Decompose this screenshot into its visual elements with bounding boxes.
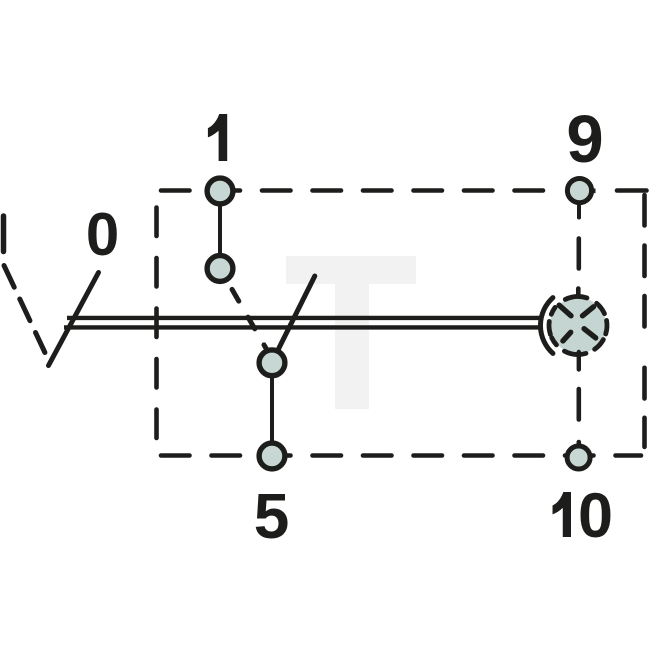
contact 1b bbox=[207, 256, 233, 282]
terminal 9 stub bbox=[577, 206, 581, 218]
terminal 5 bbox=[259, 443, 285, 469]
position marker tick bbox=[1, 216, 7, 252]
common contact node bbox=[259, 350, 285, 376]
wire nub right of terminal 9 bbox=[593, 189, 596, 194]
svg-text:5: 5 bbox=[254, 480, 290, 552]
terminal 10 bbox=[567, 446, 590, 469]
solid contact arm to common bbox=[276, 276, 315, 354]
label 1 bbox=[208, 114, 227, 161]
wire common to terminal 5 bbox=[270, 370, 274, 448]
terminal 9 bbox=[567, 179, 591, 203]
svg-text:0: 0 bbox=[86, 201, 119, 268]
svg-text:9: 9 bbox=[566, 102, 603, 177]
actuator alternate position (dashed) bbox=[4, 266, 45, 353]
lamp bbox=[540, 296, 607, 354]
enclosure dashed frame bbox=[156, 191, 647, 456]
svg-text:0: 0 bbox=[578, 481, 613, 551]
label 10 bbox=[553, 481, 613, 551]
dashed wire lamp to terminal 10 bbox=[577, 352, 581, 447]
terminal 1 bbox=[207, 178, 233, 204]
main contact bar bbox=[64, 318, 541, 328]
wire terminal 1 to contact 1b bbox=[218, 200, 222, 262]
actuator lever position 0 bbox=[49, 273, 99, 366]
dashed contact path 1b to common bbox=[228, 282, 272, 358]
dashed wire terminal 9 to lamp bbox=[576, 239, 581, 296]
